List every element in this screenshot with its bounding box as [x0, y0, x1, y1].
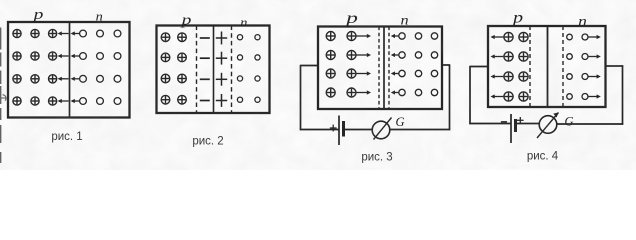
fig1 row4 electrons [80, 98, 87, 105]
fig4 row4 holes [504, 92, 513, 101]
fig1 label p [31, 6, 43, 22]
scan noise overlay [0, 0, 1, 1]
fig4 battery plus label [517, 117, 524, 124]
fig4 battery short plate [514, 119, 517, 132]
fig3 battery short plate [342, 121, 345, 137]
fig3 semiconductor box [318, 27, 442, 110]
fig3 row4 hole arrow [357, 90, 372, 94]
fig2 row1 donor ion plus [216, 32, 227, 45]
fig3 row1 electron arrow [391, 34, 399, 38]
fig2 row2 holes [161, 53, 170, 62]
fig2 semiconductor box [157, 26, 270, 114]
fig2 row2 acceptor ion minus [200, 57, 210, 59]
fig3 p-n junction line [383, 27, 385, 109]
fig4 row2 electrons [567, 54, 573, 60]
fig3 galvanometer G [372, 121, 390, 139]
fig1 row1 holes [13, 29, 21, 37]
fig2 label p [179, 12, 191, 28]
fig4 label n [578, 14, 587, 29]
fig1 row3 holes [13, 75, 21, 83]
fig1 row4 hole arrow [58, 99, 69, 103]
fig1 row2 hole arrow [58, 54, 69, 58]
fig4 wire left stub [470, 66, 488, 68]
fig4 row1 electron arrow [589, 35, 601, 39]
fig3 row1 holes [326, 32, 335, 41]
fig2 row2 donor ion plus [216, 52, 227, 65]
fig2 row3 holes [161, 74, 170, 83]
fig3 row2 holes [326, 51, 335, 60]
fig2 row1 electrons [237, 35, 242, 40]
fig3 label p [344, 9, 358, 27]
fig4 battery long plate [510, 114, 512, 143]
fig1 row1 electron arrow [71, 31, 80, 35]
fig3 row1 hole arrow [357, 34, 372, 38]
fig4 wire galvanometer to right [557, 123, 624, 125]
fig1 row4 holes [13, 97, 21, 105]
fig3 row3 hole arrow [357, 71, 372, 75]
fig4 row3 electrons [567, 74, 573, 80]
fig4 galvanometer G [539, 116, 557, 134]
fig3 row2 electrons [399, 52, 405, 58]
fig4 row4 electrons [567, 94, 573, 100]
fig1 semiconductor box [8, 22, 130, 118]
fig4 row3 holes [504, 72, 513, 81]
fig4 row4 electron arrow [589, 94, 601, 98]
fig2 row3 acceptor ion minus [200, 78, 210, 80]
fig4 row1 hole arrow [491, 35, 504, 39]
fig4 wire right vertical [622, 65, 624, 124]
fig4 row4 hole arrow [491, 94, 504, 98]
fig3 row4 electrons [399, 89, 405, 95]
fig3 wire right stub [442, 64, 450, 66]
fig3 wire battery to galvanometer [344, 129, 373, 131]
fig2 p-n junction line [213, 26, 215, 114]
fig3 depletion dashed left [378, 27, 380, 109]
fig1 row3 electron arrow [71, 77, 80, 81]
fig1 row4 electron arrow [71, 99, 80, 103]
fig4 wire right stub [606, 65, 624, 67]
fig2 depletion boundary dashed left [196, 26, 198, 114]
fig2 row4 electrons [237, 97, 242, 102]
page edge scan artifact line [0, 28, 2, 164]
fig4 wire bottom left segment [469, 123, 511, 125]
fig2 row3 electrons [237, 76, 242, 81]
fig1 row2 electron arrow [71, 54, 80, 58]
fig4 row1 holes [504, 32, 513, 41]
fig2 depletion boundary dashed right [231, 26, 233, 114]
fig3 wire left stub [301, 65, 319, 67]
fig4 row1 electrons [567, 34, 573, 40]
fig3 wire left vertical [300, 65, 302, 130]
fig2 row4 holes [161, 95, 170, 104]
fig4 row2 hole arrow [491, 54, 504, 58]
fig3 row3 electron arrow [391, 71, 399, 75]
fig4 battery minus label [501, 121, 507, 123]
fig3 depletion dashed right [388, 27, 390, 109]
fig2 row1 holes [161, 33, 170, 42]
fig3 row1 electrons [399, 33, 405, 39]
fig3 row2 electron arrow [391, 53, 399, 57]
fig1 row2 electrons [80, 53, 87, 60]
fig1 row2 holes [13, 52, 21, 60]
fig2 row4 donor ion plus [216, 94, 227, 107]
fig1 row1 electrons [80, 30, 87, 37]
fig4 p-n junction line [547, 26, 549, 107]
fig1 row3 hole arrow [58, 77, 69, 81]
fig2 label n [240, 15, 247, 29]
fig4 row2 holes [504, 52, 513, 61]
fig3 battery long plate [338, 116, 340, 146]
fig4 depletion dashed right [562, 26, 564, 107]
fig4 depletion dashed left [529, 26, 531, 107]
fig3 row3 electrons [399, 70, 405, 76]
fig4 row2 electron arrow [589, 54, 601, 58]
fig2 row4 acceptor ion minus [200, 100, 210, 102]
fig3 row2 hole arrow [357, 53, 372, 57]
fig1 p-n junction line [69, 22, 71, 118]
fig2 row2 electrons [237, 55, 242, 60]
scan bleed mark (partial carrier symbol) [1, 95, 7, 101]
fig4 wire left vertical [469, 66, 471, 124]
fig4 row3 electron arrow [589, 74, 601, 78]
fig3 wire galvanometer to right [390, 129, 450, 131]
fig3 row4 electron arrow [391, 90, 399, 94]
fig1 label n [96, 9, 103, 23]
fig3 row4 holes [326, 88, 335, 97]
fig4 row3 hole arrow [491, 74, 504, 78]
fig1 row3 electrons [80, 75, 87, 82]
fig2 row3 donor ion plus [216, 73, 227, 86]
fig3 wire bottom left segment [300, 129, 339, 131]
fig1 row1 hole arrow [58, 31, 69, 35]
fig4 wire battery to galvanometer [516, 123, 540, 125]
fig3 label n [400, 13, 408, 27]
fig3 wire right vertical [449, 65, 451, 130]
fig4 semiconductor box [488, 26, 606, 107]
fig4 label p [511, 9, 523, 26]
fig3 battery plus label [330, 125, 337, 132]
fig3 row3 holes [326, 69, 335, 78]
fig2 row1 acceptor ion minus [200, 37, 210, 39]
